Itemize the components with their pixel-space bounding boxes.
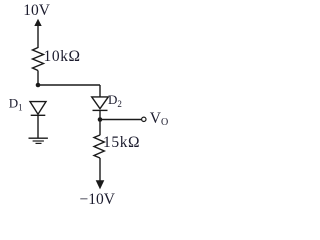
ground [29, 138, 48, 143]
node junction A [36, 83, 41, 88]
wire [100, 119, 141, 121]
svg-text:15kΩ: 15kΩ [103, 134, 140, 151]
svg-text:10kΩ: 10kΩ [44, 48, 81, 65]
diode D1 [30, 102, 46, 138]
supply +10V arrow [34, 19, 41, 48]
svg-text:−10V: −10V [80, 191, 116, 208]
wire [38, 84, 100, 86]
node junction B [98, 117, 103, 122]
wire [99, 158, 101, 182]
diode D2 [92, 97, 109, 120]
wire [99, 85, 101, 97]
wire [37, 71, 39, 86]
supply -10V arrow [96, 180, 105, 189]
output terminal circle [142, 117, 146, 121]
wire [99, 120, 101, 136]
resistor R2 15k [94, 135, 104, 158]
svg-text:10V: 10V [23, 2, 51, 19]
resistor R1 10k [33, 48, 44, 71]
